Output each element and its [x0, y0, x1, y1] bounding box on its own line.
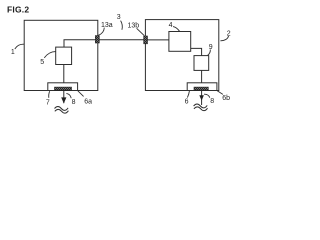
svg-text:1: 1: [11, 49, 15, 56]
svg-text:9: 9: [209, 44, 213, 51]
svg-text:13a: 13a: [101, 22, 113, 29]
svg-text:5: 5: [40, 59, 44, 66]
svg-text:6: 6: [185, 98, 189, 105]
svg-text:4: 4: [169, 22, 173, 29]
svg-text:8: 8: [72, 99, 76, 106]
svg-text:3: 3: [117, 14, 121, 21]
svg-text:7: 7: [46, 99, 50, 106]
svg-text:13b: 13b: [128, 22, 140, 29]
svg-text:2: 2: [227, 30, 231, 37]
svg-text:FIG.2: FIG.2: [7, 5, 29, 15]
svg-text:8: 8: [210, 98, 214, 105]
svg-text:6a: 6a: [84, 98, 92, 105]
svg-text:6b: 6b: [222, 95, 230, 102]
